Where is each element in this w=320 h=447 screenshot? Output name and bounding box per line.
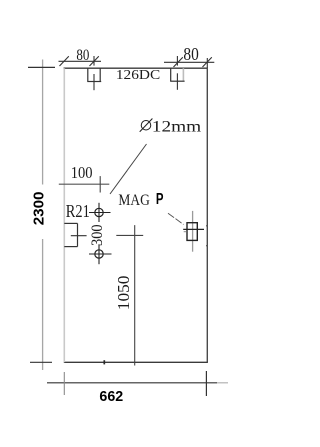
svg-text:80: 80 <box>183 44 199 64</box>
svg-text:R21: R21 <box>66 201 90 221</box>
svg-text:P: P <box>156 191 164 208</box>
svg-text:300: 300 <box>89 224 106 246</box>
svg-text:100: 100 <box>71 163 93 182</box>
svg-text:12mm: 12mm <box>152 118 201 135</box>
svg-text:MAG: MAG <box>118 192 150 209</box>
svg-text:80: 80 <box>76 45 89 64</box>
svg-text:126DC: 126DC <box>116 68 160 83</box>
svg-text:2300: 2300 <box>32 192 48 226</box>
svg-text:662: 662 <box>99 389 123 405</box>
svg-text:1050: 1050 <box>114 276 133 311</box>
